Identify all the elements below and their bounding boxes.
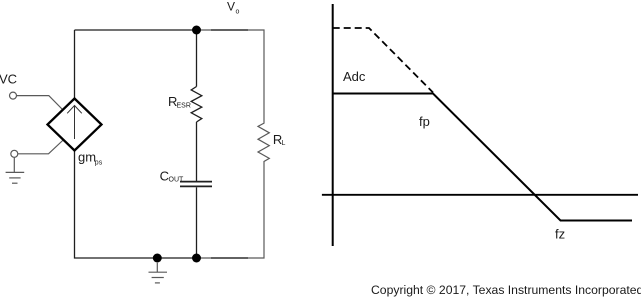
svg-text:ESR: ESR bbox=[177, 102, 191, 109]
svg-text:fp: fp bbox=[419, 114, 430, 129]
svg-text:Adc: Adc bbox=[343, 69, 366, 84]
svg-text:o: o bbox=[236, 9, 240, 16]
svg-text:Copyright © 2017, Texas Instru: Copyright © 2017, Texas Instruments Inco… bbox=[371, 283, 641, 297]
svg-text:V: V bbox=[227, 0, 235, 14]
svg-text:OUT: OUT bbox=[169, 177, 185, 184]
svg-text:ps: ps bbox=[95, 160, 103, 167]
svg-text:gm: gm bbox=[78, 150, 96, 165]
svg-text:fz: fz bbox=[555, 226, 565, 241]
svg-text:L: L bbox=[282, 140, 286, 147]
svg-text:VC: VC bbox=[0, 72, 17, 87]
